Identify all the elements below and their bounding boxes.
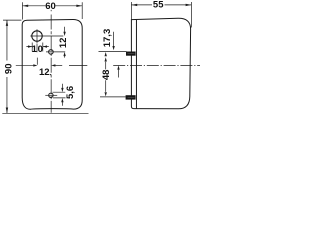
dimension 12 horizontal: right arrow and shaft <box>54 64 62 66</box>
dimension 55: dimension line <box>131 4 191 6</box>
dimension 60: extension lines <box>22 2 82 19</box>
dimension 10: extension lines <box>32 43 43 52</box>
svg-text:12: 12 <box>39 67 50 78</box>
dimension 48: dim line with double top arrowhead <box>105 62 107 92</box>
side view body outline <box>131 18 190 109</box>
vertical centerline (front view) <box>50 10 52 11</box>
horizontal axis dash-dot line (front view, right part) <box>69 64 87 66</box>
svg-text:0: 0 <box>38 44 43 55</box>
dimension 55: arrowheads <box>131 4 191 6</box>
dimension 48: bottom down arrowhead <box>105 92 107 96</box>
dimension 60: dimension line <box>22 5 82 7</box>
bottom hole crosshair horizontal <box>45 94 57 96</box>
dimension 5,6: top arrow (pointing down) <box>61 84 63 89</box>
dimension 90: top extension line <box>3 19 22 21</box>
mounting hole large (front view) <box>32 31 42 41</box>
dimension 12 horizontal: dim line (on axis) left shaft and arrow <box>16 64 35 66</box>
lower spade terminal <box>126 95 136 99</box>
dimension 10: dimension line with outside arrows <box>26 46 48 48</box>
small center hole (front view) <box>49 50 54 55</box>
svg-text:17,3: 17,3 <box>102 29 113 48</box>
dimension 5,6: extension lines <box>53 92 66 98</box>
small hole crosshair horizontal ext (right ref of vertical 12 dim) <box>46 51 65 53</box>
svg-text:60: 60 <box>45 1 56 12</box>
upper spade terminal <box>126 52 136 56</box>
lower terminal top extension line <box>100 96 126 98</box>
dimension 12 vertical: upper shaft and down arrowhead <box>64 27 66 33</box>
dimension 90: dimension line <box>6 20 8 113</box>
svg-text:90: 90 <box>3 64 14 75</box>
svg-text:55: 55 <box>153 0 164 11</box>
dimension 12 vertical: lower up-arrowhead and shaft <box>64 55 66 58</box>
leader arrow at axis (side view) <box>118 69 120 78</box>
svg-text:48: 48 <box>101 70 112 81</box>
dimension 90: arrowheads <box>6 20 8 113</box>
svg-text:12: 12 <box>58 38 69 49</box>
dimension 17,3: dim line and down arrowhead <box>113 32 115 47</box>
svg-text:5,6: 5,6 <box>65 86 76 99</box>
front view body outline <box>22 20 82 110</box>
side view lens/housing inner line <box>135 20 137 109</box>
bottom hole 5.6 (front view) <box>49 93 53 97</box>
large hole crosshair vertical <box>36 29 38 65</box>
dimension 5,6: bottom arrow (pointing up) <box>61 102 63 106</box>
dimension 10: arrowheads <box>28 45 47 47</box>
terminal stripe highlights <box>128 54 135 98</box>
dimension 60: arrowheads <box>22 5 82 7</box>
upper terminal top extension line <box>99 50 127 52</box>
large hole crosshair horizontal (extends right as ext line for vertical 12 dim) <box>30 35 63 37</box>
dimension 55: extension lines <box>131 2 191 28</box>
dimension 90: bottom extension line (baseline) <box>2 112 88 114</box>
horizontal axis dash-dot line (side view) <box>113 64 200 66</box>
